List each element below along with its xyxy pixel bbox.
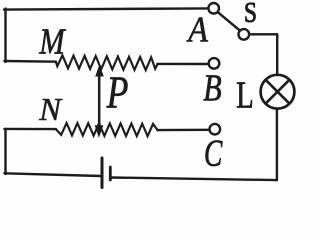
terminal B circle — [209, 58, 220, 69]
terminal C circle — [210, 124, 221, 135]
terminal A (switch open circle) — [208, 3, 219, 14]
wire bottom left — [4, 173, 100, 176]
wire left vertical upper — [4, 9, 6, 62]
label P — [106, 78, 127, 108]
wire right vertical upper (switch to lamp) — [276, 34, 278, 74]
resistor M — [56, 55, 158, 70]
wire top horizontal — [4, 8, 208, 9]
lamp L circle — [261, 75, 295, 109]
label S — [245, 3, 255, 22]
label B — [204, 76, 221, 101]
wire switch to lamp horizontal — [249, 33, 277, 35]
resistor N — [56, 123, 158, 136]
switch pivot circle — [239, 29, 250, 40]
wiper arrowhead down — [95, 125, 104, 138]
battery short plate (negative) — [109, 167, 112, 180]
battery long plate (positive) — [101, 158, 104, 188]
label M — [39, 29, 66, 53]
label A — [187, 18, 208, 42]
label C — [206, 140, 223, 166]
wire right vertical lower (lamp to battery) — [276, 110, 278, 181]
wire left vertical lower — [4, 129, 6, 174]
wire M row right — [157, 63, 207, 65]
wire bottom right — [111, 178, 277, 181]
wiper arrowhead up — [95, 64, 104, 76]
wire N row left — [4, 128, 56, 131]
label N — [39, 99, 62, 120]
label L — [237, 83, 252, 108]
lamp L cross — [266, 80, 290, 104]
wire N row right — [157, 129, 209, 132]
switch S lever — [218, 12, 240, 30]
wiper P double arrow shaft — [98, 74, 101, 126]
wire M row left — [4, 60, 56, 63]
